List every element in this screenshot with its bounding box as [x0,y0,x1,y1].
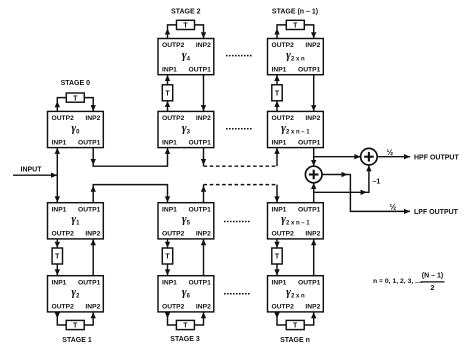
adder S2 [361,148,378,165]
svg-text:STAGE 2: STAGE 2 [171,8,201,15]
svg-text:INP1: INP1 [52,279,67,286]
svg-text:OUTP2: OUTP2 [162,231,185,238]
delay T box between gamma3 and gamma4 [162,85,172,101]
svg-text:n = 0, 1, 2, 3, ....: n = 0, 1, 2, 3, .... [373,278,423,285]
svg-text:½: ½ [390,203,397,212]
svg-text:T: T [183,23,188,30]
range formula n = 0,1,2,3,...,(N-1)/2 [373,273,445,292]
wire T to gamma2n INP1 [274,264,279,276]
wire gamma2n OUTP2 to bottom T [274,312,286,325]
svg-text:OUTP1: OUTP1 [298,66,321,73]
wire T to gamma6 INP1 [165,264,170,276]
svg-text:OUTP1: OUTP1 [189,279,212,286]
svg-text:INP1: INP1 [162,66,177,73]
op block U6 gamma6 stage 3 [158,276,214,312]
op block U2n gamma 2n stage n-1 [268,39,324,75]
svg-text:INP2: INP2 [196,42,211,49]
svg-text:OUTP1: OUTP1 [78,139,101,146]
svg-text:INP2: INP2 [305,304,320,311]
svg-text:T: T [73,323,78,330]
wire T to gamma2 INP1 [55,264,60,276]
svg-text:STAGE 0: STAGE 0 [61,80,91,87]
wire gamma0 OUTP1 to gamma3 INP1 [91,148,171,167]
svg-text:INPUT: INPUT [21,167,43,174]
svg-text:STAGE 1: STAGE 1 [62,337,92,344]
svg-text:OUTP2: OUTP2 [272,304,295,311]
svg-text:T: T [165,91,170,98]
wire T to gamma4 INP1 [165,75,170,85]
svg-text:OUTP1: OUTP1 [298,279,321,286]
delay T box between stage n blocks [272,248,282,264]
op block U2n-1 gamma 2n-1 row 2 [268,111,324,147]
svg-text:(N – 1): (N – 1) [422,273,443,280]
wire gamma2n OUTP1 to gamma2n-1 INP2 [311,75,316,112]
svg-text:T: T [55,254,60,261]
wire INPUT feed [13,173,57,178]
svg-text:STAGE 3: STAGE 3 [170,336,200,343]
wire T to gamma2n INP2 [304,25,316,39]
wire branch to adder S2 left input [314,154,361,159]
svg-text:INP2: INP2 [196,231,211,238]
svg-text:STAGE n: STAGE n [280,337,310,344]
svg-text:T: T [275,91,280,98]
wire bottom T to gamma2n INP2 [304,312,316,325]
wire T to gamma0 INP2 [84,98,96,112]
svg-text:T: T [183,323,188,330]
delay T box between gamma5 and gamma6 [162,248,172,264]
wire gamma1 OUTP1 to gamma5 INP1 [91,185,171,203]
svg-text:INP2: INP2 [85,115,100,122]
dashed wire gamma3 OUTP1 to gamma 2n-1 INP1 [201,148,280,167]
svg-text:OUTP2: OUTP2 [272,115,295,122]
wire gamma3 OUTP2 to T [165,101,170,112]
svg-text:OUTP1: OUTP1 [78,279,101,286]
svg-text:INP2: INP2 [85,304,100,311]
svg-text:OUTP1: OUTP1 [78,206,101,213]
svg-text:INP1: INP1 [272,206,287,213]
svg-text:OUTP1: OUTP1 [189,206,212,213]
svg-text:2: 2 [431,285,435,292]
wire gamma2 OUTP1 to gamma1 INP2 [91,239,96,276]
op block U1 gamma1 stage 1 [48,203,104,239]
wire input node to gamma1 INP1 [55,175,60,203]
svg-text:INP2: INP2 [305,42,320,49]
delay T box stage n-1 [286,20,304,29]
op block U3 gamma3 stage 2 [158,111,214,147]
svg-text:INP2: INP2 [305,115,320,122]
svg-text:LPF OUTPUT: LPF OUTPUT [414,209,459,216]
wire bottom T to gamma6 INP2 [194,312,206,325]
svg-text:INP1: INP1 [272,139,287,146]
adder S1 [305,166,322,183]
dashed wire gamma5 OUTP1 to gamma 2n-1 INP1 lower [201,185,280,203]
op block U5 gamma5 stage 3 [158,203,214,239]
wire gamma6 OUTP1 to gamma5 INP2 [201,239,206,276]
wire gamma2n-1 OUTP2 to T [274,101,279,112]
svg-text:INP1: INP1 [272,66,287,73]
wire T to gamma2n INP1 [274,75,279,85]
svg-text:OUTP2: OUTP2 [52,115,75,122]
delay T box between gamma1 and gamma2 [52,248,62,264]
delay T box stage 2 [177,20,195,29]
dotted continuation row 3 [224,221,251,223]
wire stage n OUTP1 up to adder S1 [311,183,316,203]
svg-text:INP1: INP1 [52,139,67,146]
svg-text:OUTP2: OUTP2 [272,42,295,49]
svg-text:OUTP2: OUTP2 [52,231,75,238]
op block U0 gamma0 stage 0 [48,111,104,147]
op block U2 gamma2 stage 1 [48,276,104,312]
wire input node to gamma0 INP1 [55,148,60,176]
svg-text:OUTP2: OUTP2 [162,304,185,311]
dotted continuation row 4 [224,293,251,295]
wire gamma2n-1 OUTP2 to T [274,239,279,248]
wire gamma0 OUTP2 to T [55,98,67,112]
svg-text:INP2: INP2 [85,231,100,238]
wire gamma5 OUTP2 to T [165,239,170,248]
wire bottom T to gamma2 INP2 [84,312,96,325]
wire adder S1 to LPF output [322,172,410,214]
wire gamma2n-1 OUTP1 down to adder S1 [311,148,316,167]
wire gamma4 OUTP1 to gamma3 INP2 [201,75,206,112]
svg-text:OUTP1: OUTP1 [189,66,212,73]
svg-text:STAGE (n – 1): STAGE (n – 1) [272,8,318,15]
wire adder S2 to HPF output [377,154,410,159]
svg-text:INP1: INP1 [162,279,177,286]
svg-text:T: T [73,95,78,102]
svg-text:OUTP2: OUTP2 [162,42,185,49]
wire branch with -1 gain to adder S2 bottom [314,165,372,195]
svg-text:T: T [293,23,298,30]
svg-text:INP1: INP1 [272,279,287,286]
wire gamma6 OUTP2 to bottom T [165,312,177,325]
svg-text:–1: –1 [373,179,381,186]
svg-text:T: T [165,254,170,261]
delay T box between gamma2n-1 and gamma2n [272,85,282,101]
delay T box stage n bottom [286,320,304,329]
dotted continuation row 1 [226,55,253,57]
wire gamma4 OUTP2 to T [165,25,177,39]
svg-text:INP2: INP2 [196,304,211,311]
delay T box stage 1 bottom [66,320,84,329]
svg-text:OUTP1: OUTP1 [189,139,212,146]
op block gamma 2n stage n [268,276,324,312]
svg-text:OUTP2: OUTP2 [162,115,185,122]
svg-text:OUTP1: OUTP1 [298,206,321,213]
svg-text:T: T [275,254,280,261]
delay T box stage 0 [66,93,84,102]
svg-text:OUTP2: OUTP2 [52,304,75,311]
op block gamma 2n-1 stage n [268,203,324,239]
delay T box stage 3 bottom [176,320,194,329]
svg-text:INP2: INP2 [305,231,320,238]
svg-text:INP2: INP2 [196,115,211,122]
svg-text:T: T [293,323,298,330]
wire gamma2 OUTP2 to bottom T [55,312,67,325]
wire gamma2n OUTP1 to gamma2n-1 INP2 [311,239,316,276]
wire gamma1 OUTP2 to T [55,239,60,248]
svg-text:½: ½ [387,148,394,157]
svg-text:OUTP2: OUTP2 [272,231,295,238]
wire gamma2n OUTP2 to T [274,25,286,39]
dotted continuation row 2 [226,128,253,130]
svg-text:INP1: INP1 [52,206,67,213]
svg-text:INP1: INP1 [162,139,177,146]
op block U4 gamma4 stage 2 [158,39,214,75]
wire T to gamma4 INP2 [195,25,207,39]
svg-text:OUTP1: OUTP1 [298,139,321,146]
svg-text:HPF OUTPUT: HPF OUTPUT [414,154,459,161]
svg-text:INP1: INP1 [162,206,177,213]
